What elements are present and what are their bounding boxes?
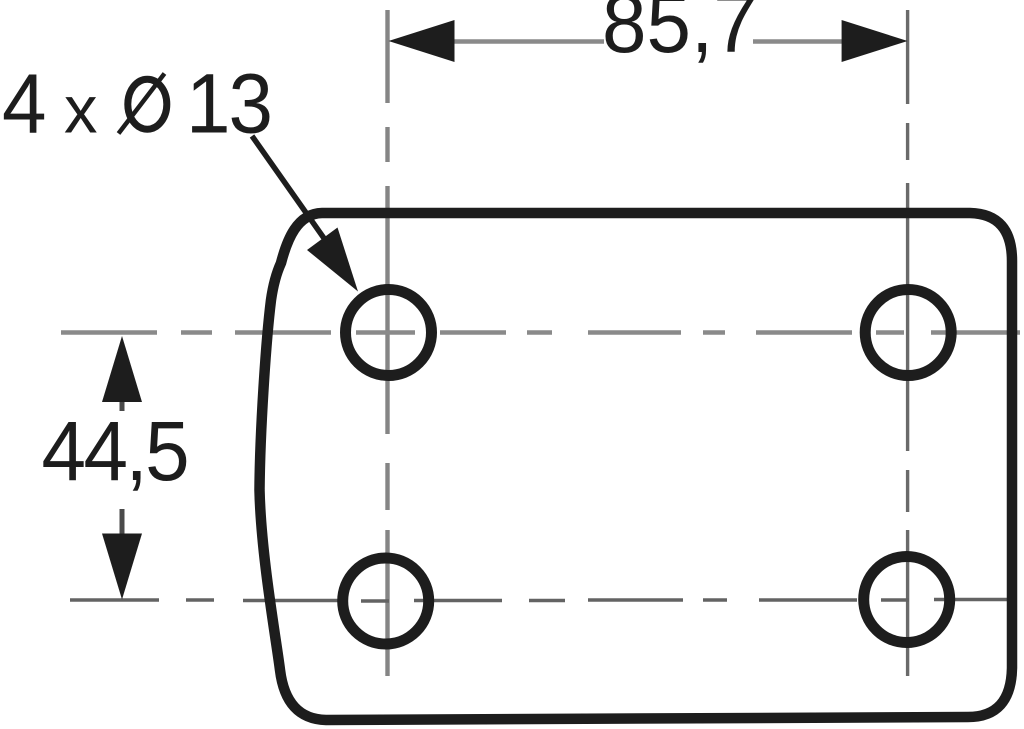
svg-text:4: 4 xyxy=(2,56,46,151)
diameter symbol slash xyxy=(119,74,165,134)
dimension text 85,7 xyxy=(602,0,758,70)
centerline vertical left (hole column A) xyxy=(385,10,389,676)
arrowhead up of dimension 44,5 xyxy=(102,336,142,402)
dimension line 85,7 (top) xyxy=(450,39,846,44)
dimension text 44,5 xyxy=(42,404,188,499)
hole bottom-left xyxy=(343,558,429,644)
hole top-left xyxy=(346,290,432,376)
arrowhead down of dimension 44,5 xyxy=(102,534,142,600)
centerline horizontal bottom row xyxy=(70,600,1016,602)
arrowhead right of dimension 85,7 xyxy=(842,20,908,62)
label text 13 xyxy=(186,56,271,151)
svg-text:44,5: 44,5 xyxy=(42,404,188,499)
svg-text:13: 13 xyxy=(186,56,271,151)
leader line from label to top-left hole xyxy=(252,136,340,261)
arrowhead left of dimension 85,7 xyxy=(389,20,455,62)
diameter symbol circle xyxy=(128,79,167,129)
hole top-right xyxy=(865,290,951,376)
dimension line 44,5 (left, stems) xyxy=(120,399,125,536)
svg-text:85,7: 85,7 xyxy=(602,0,758,70)
centerline horizontal top row xyxy=(61,330,1020,335)
label text 4 xyxy=(2,56,46,151)
plate outline xyxy=(260,213,1013,720)
svg-text:x: x xyxy=(64,73,98,148)
centerline vertical right (hole column B) xyxy=(906,10,909,676)
hole bottom-right xyxy=(864,557,950,643)
leader arrowhead at top-left hole xyxy=(307,228,358,292)
